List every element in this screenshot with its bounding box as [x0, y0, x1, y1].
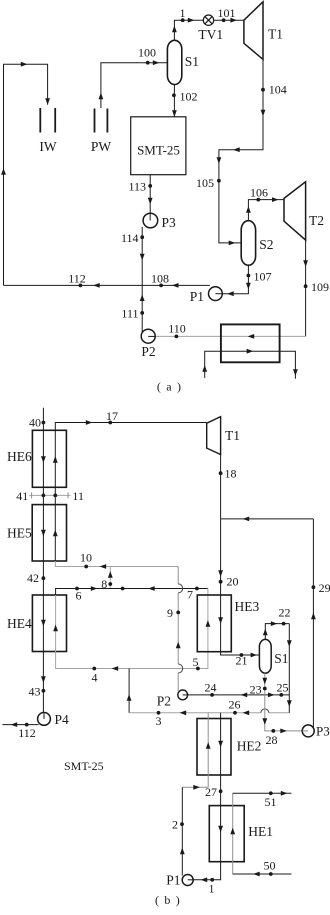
- svg-text:106: 106: [250, 186, 268, 200]
- svg-text:51: 51: [265, 795, 277, 809]
- svg-text:10: 10: [80, 551, 92, 565]
- svg-text:3: 3: [156, 714, 162, 728]
- heat exchanger HE1 box: [209, 806, 244, 862]
- node 114: [140, 235, 144, 239]
- wire pump P3 riser (stream 29): [312, 519, 314, 728]
- svg-text:113: 113: [128, 180, 146, 194]
- node 29: [312, 585, 316, 589]
- wire P1 discharge riser (stream 2): [181, 787, 183, 875]
- wire HE4/HE3 gray loop: stream 4/5 line and HE3 left pass: [56, 589, 208, 669]
- node on 6/7 header: [121, 587, 125, 591]
- svg-text:17: 17: [106, 409, 118, 423]
- wire HE4 top to junction, stream 6/7 header: [56, 589, 208, 596]
- svg-text:40: 40: [29, 416, 41, 430]
- svg-text:P2: P2: [141, 344, 155, 359]
- node 27: [219, 789, 223, 793]
- svg-text:5: 5: [193, 655, 199, 669]
- node 21: [240, 653, 244, 657]
- svg-text:41: 41: [16, 489, 28, 503]
- svg-text:IW: IW: [39, 139, 56, 154]
- node 5: [196, 667, 200, 671]
- source PW (process water): [94, 109, 96, 133]
- node 9: [176, 611, 180, 615]
- node 7: [195, 587, 199, 591]
- node 106: [256, 198, 260, 202]
- svg-text:P1: P1: [166, 873, 180, 888]
- vessel S1 (flash drum, diagram a): [167, 40, 181, 84]
- svg-text:P1: P1: [190, 289, 204, 304]
- svg-text:HE4: HE4: [7, 616, 32, 631]
- svg-text:100: 100: [138, 46, 156, 60]
- pump P1 (diagram b): [182, 875, 193, 886]
- svg-text:HE2: HE2: [237, 739, 262, 754]
- node 104: [261, 88, 265, 92]
- svg-text:109: 109: [311, 280, 329, 294]
- node 22: [282, 622, 286, 626]
- heat exchanger HE6 box: [32, 430, 66, 487]
- wire P2 discharge riser (stream 9, gray) with hops: [177, 567, 179, 584]
- svg-text:HE3: HE3: [235, 599, 260, 614]
- wire boiler outlet 17 line, HE6 to turbine T1: [55, 423, 206, 431]
- svg-text:HE1: HE1: [248, 824, 273, 839]
- svg-text:P3: P3: [316, 724, 330, 739]
- node 50: [269, 872, 273, 876]
- svg-text:28: 28: [266, 733, 278, 747]
- wire stream 3 riser: [128, 669, 130, 713]
- wire hot pass down HE2 and HE1 to pump P1 (streams 27/1): [188, 713, 221, 880]
- wire S2 bottoms to pump P1 (stream 107): [215, 265, 248, 294]
- vessel S1 (diagram b): [259, 639, 271, 673]
- svg-text:29: 29: [319, 581, 330, 595]
- pump P3 (diagram b): [302, 725, 314, 737]
- svg-text:111: 111: [121, 307, 138, 321]
- svg-text:P4: P4: [55, 712, 70, 727]
- wire condenser hot side, 109 corner to pump P2 (stream 110, gray): [148, 335, 305, 337]
- wire S1 bottoms to pump P3 (streams 23/28, gray): [265, 673, 308, 731]
- node 107: [247, 274, 251, 278]
- unit SMT-25 box: [131, 117, 186, 175]
- node 111: [140, 311, 144, 315]
- svg-text:11: 11: [72, 489, 84, 503]
- svg-text:105: 105: [196, 176, 214, 190]
- wire HE1 cooling water pass (gray vertical): [232, 793, 234, 874]
- svg-text:T2: T2: [309, 213, 324, 228]
- node 101: [222, 18, 226, 22]
- node 43: [42, 689, 46, 693]
- svg-text:20: 20: [227, 575, 239, 589]
- wire P1 discharge header to IW riser (streams 108/112): [4, 284, 210, 286]
- node 1 (diagram b): [210, 878, 214, 882]
- svg-text:104: 104: [269, 83, 287, 97]
- node 113: [148, 184, 152, 188]
- wire riser to IW sink: [4, 64, 48, 285]
- turbine T1 (diagram b): [207, 417, 221, 455]
- node 26: [233, 711, 237, 715]
- svg-text:PW: PW: [91, 139, 112, 154]
- svg-text:T1: T1: [225, 428, 240, 443]
- turbine T2 (diagram a): [284, 182, 306, 240]
- node 102: [172, 93, 176, 97]
- node 28: [271, 729, 275, 733]
- wire S2 overhead to turbine T2 inlet (stream 106): [248, 200, 284, 221]
- wire hot stream 40 down through HE6/HE5/HE4 to pump P4: [42, 408, 44, 719]
- node 10: [84, 565, 88, 569]
- node 41 with tie line to node 11 (gray): [29, 494, 71, 496]
- svg-text:TV1: TV1: [198, 27, 223, 42]
- node 17: [108, 421, 112, 425]
- node 3: [157, 711, 161, 715]
- pump P3 (diagram a): [143, 213, 158, 228]
- svg-text:114: 114: [121, 231, 139, 245]
- svg-text:( a ): ( a ): [157, 380, 182, 394]
- wire T2 exhaust down (stream 109): [305, 240, 307, 336]
- node 23: [263, 687, 267, 691]
- wire P2 discharge up to header (stream 111): [141, 285, 143, 332]
- node 42: [42, 576, 46, 580]
- heat exchanger HE2 box: [197, 719, 231, 776]
- svg-text:25: 25: [277, 681, 289, 695]
- wire condenser cooling water pass: [205, 351, 296, 379]
- node 18: [219, 471, 223, 475]
- wire pump P2 suction header (streams 24/25): [183, 694, 290, 696]
- svg-text:9: 9: [167, 606, 173, 620]
- wire cooling water inlet (stream 50): [233, 873, 292, 875]
- node 24: [210, 693, 214, 697]
- node 25: [279, 693, 283, 697]
- svg-text:101: 101: [218, 6, 236, 20]
- vessel S2 (flash drum, diagram a): [241, 221, 255, 266]
- svg-text:4: 4: [92, 671, 98, 685]
- heat exchanger HE4 box: [32, 595, 66, 652]
- hop of stream 9 over 6/7 header: [178, 584, 183, 593]
- svg-text:S1: S1: [274, 651, 288, 666]
- node 100: [146, 61, 150, 65]
- node 112: [79, 284, 83, 288]
- pump P2 (diagram b): [178, 690, 188, 700]
- wire S1 overhead (stream 22): [265, 624, 289, 640]
- svg-text:50: 50: [264, 859, 276, 873]
- svg-text:6: 6: [76, 589, 82, 603]
- pump P1 (diagram a): [209, 287, 223, 301]
- svg-text:1: 1: [209, 882, 215, 896]
- node 2: [180, 822, 184, 826]
- wire stream 3/26 header (gray): [129, 712, 261, 714]
- svg-text:107: 107: [254, 270, 272, 284]
- wire 10 line into HE5 (gray): [55, 561, 178, 567]
- svg-text:SMT-25: SMT-25: [64, 759, 104, 773]
- svg-text:22: 22: [279, 606, 291, 620]
- svg-text:S1: S1: [185, 54, 199, 69]
- svg-text:26: 26: [229, 697, 241, 711]
- svg-text:7: 7: [187, 588, 193, 602]
- wire P4 discharge out left (stream 112): [2, 724, 38, 726]
- svg-text:HE5: HE5: [7, 526, 32, 541]
- svg-text:18: 18: [225, 467, 237, 481]
- wire 22 drop to pump header: [288, 624, 290, 713]
- svg-text:2: 2: [172, 818, 178, 832]
- wire T1 exhaust down to S2 inlet (stream 104/105): [219, 59, 263, 243]
- wire HE2 cold pass (gray): [182, 713, 208, 788]
- node 20: [219, 580, 223, 584]
- turbine T1 (diagram a): [244, 2, 263, 60]
- node 8: [108, 582, 112, 586]
- valve TV1: [203, 15, 213, 25]
- svg-text:42: 42: [27, 571, 39, 585]
- heat exchanger HE3 box: [197, 595, 231, 652]
- svg-text:( b ): ( b ): [155, 893, 181, 907]
- hop of stream 9 over 4/5 line: [178, 664, 183, 673]
- wire S1 bottoms to SMT-25 (stream 102): [173, 85, 175, 117]
- svg-text:112: 112: [18, 726, 36, 740]
- wire P3 discharge down to header (stream 114): [141, 227, 143, 286]
- node 108: [159, 284, 163, 288]
- wire cooling water outlet (stream 51): [233, 792, 292, 794]
- hop of 26 line over S1 bottoms line: [261, 709, 269, 713]
- condenser box (diagram a): [221, 324, 280, 362]
- node 109: [304, 284, 308, 288]
- svg-text:P2: P2: [157, 694, 171, 709]
- wire recycle return into exhaust line: [221, 518, 314, 520]
- node 1: [181, 18, 185, 22]
- wire SMT-25 to pump P3 (stream 113): [149, 175, 151, 221]
- wire cold stream up through HE6 and HE5: [54, 430, 56, 561]
- wire S1 overhead to turbine T1 inlet: [174, 20, 244, 40]
- svg-text:P3: P3: [162, 215, 177, 230]
- svg-text:110: 110: [168, 322, 186, 336]
- sink IW (injection water): [39, 108, 41, 133]
- node 51: [269, 791, 273, 795]
- svg-text:108: 108: [151, 271, 169, 285]
- svg-text:112: 112: [68, 271, 86, 285]
- svg-text:S2: S2: [259, 237, 273, 252]
- wire junction 8 riser (gray): [109, 567, 111, 589]
- heat exchanger HE5 box: [32, 505, 66, 561]
- svg-text:SMT-25: SMT-25: [137, 143, 180, 158]
- svg-text:43: 43: [29, 684, 41, 698]
- wire HE3 bottom to vessel S1 (stream 21): [221, 652, 260, 655]
- node 6: [75, 587, 79, 591]
- pump P4: [38, 713, 51, 726]
- svg-text:102: 102: [180, 89, 198, 103]
- wire PW to S1 feed (stream 100): [101, 63, 167, 108]
- svg-text:24: 24: [205, 681, 217, 695]
- wire T1 exhaust down to HE3 (streams 18/20): [220, 455, 222, 652]
- svg-text:21: 21: [236, 654, 248, 668]
- svg-text:23: 23: [250, 683, 262, 697]
- svg-text:1: 1: [180, 6, 186, 20]
- node 105: [217, 179, 221, 183]
- node 40: [42, 421, 46, 425]
- node 4: [92, 667, 96, 671]
- node 110: [175, 335, 179, 339]
- svg-text:HE6: HE6: [7, 449, 32, 464]
- svg-text:T1: T1: [268, 27, 283, 42]
- pump P2 (diagram a): [141, 329, 155, 343]
